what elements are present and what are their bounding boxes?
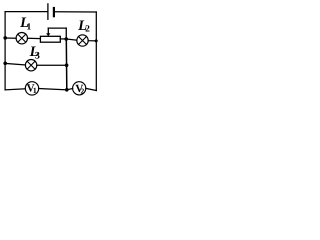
svg-text:2: 2 [81, 86, 85, 95]
wire row2 left (to L1) [5, 37, 16, 39]
wire node J1 to L2 [66, 39, 77, 40]
wire rheostat to node J1 [60, 38, 66, 40]
lamp L3 circle [25, 59, 36, 70]
lamp L1 circle [16, 33, 27, 44]
wire row3 left (to L3) [5, 63, 25, 65]
node dot left row2 [3, 36, 7, 40]
node dot right border row2 [95, 39, 98, 42]
rheostat R body [40, 36, 60, 42]
node J3 dot [65, 88, 69, 92]
wire top-right segment [55, 11, 97, 13]
wire right border [95, 12, 97, 91]
voltmeter V2 circle [73, 82, 86, 95]
battery B1 long plate [47, 4, 49, 19]
svg-text:1: 1 [33, 86, 37, 95]
node J1 dot [64, 37, 68, 41]
node dot left row3 [3, 62, 7, 66]
svg-text:2: 2 [85, 25, 90, 35]
node J2 dot [65, 63, 69, 67]
wire V1 to J3 [39, 89, 67, 90]
wire L2 to right border [88, 40, 96, 42]
lamp L3 cross [27, 61, 35, 69]
lamp L2 circle [77, 35, 88, 46]
svg-text:1: 1 [27, 23, 32, 33]
rheostat slider arm vertical [47, 28, 49, 35]
wire L3 to node J2 [37, 64, 67, 66]
battery B1 short thick plate [53, 8, 55, 16]
wire left border [4, 12, 6, 90]
lamp L1 cross [18, 34, 26, 42]
wire L1 to rheostat [28, 37, 41, 39]
svg-text:3: 3 [35, 51, 40, 62]
voltmeter V1 circle [25, 82, 38, 95]
wire bottom-left to V1 [5, 89, 25, 90]
wire top-left segment [5, 11, 48, 13]
rheostat slider arm down to J1 [65, 28, 67, 39]
wire V2 to bottom-right [86, 88, 97, 90]
wire vertical bus J1-J2-J3 [65, 39, 68, 90]
rheostat slider arm horizontal [48, 27, 66, 29]
wire J3 to V2 [67, 89, 73, 90]
rheostat slider arrowhead [46, 33, 50, 36]
lamp L2 cross [78, 36, 86, 44]
